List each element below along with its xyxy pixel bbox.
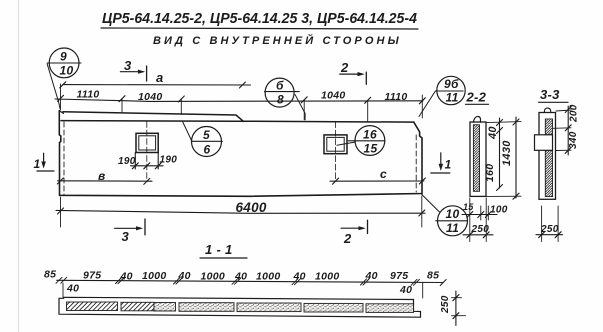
panel main top edge bbox=[61, 121, 414, 123]
6400 dimension bbox=[60, 197, 62, 227]
svg-text:8: 8 bbox=[277, 93, 284, 107]
svg-text:11: 11 bbox=[446, 91, 459, 105]
svg-text:250: 250 bbox=[471, 224, 490, 235]
lifting loop bbox=[473, 116, 480, 122]
svg-text:5: 5 bbox=[203, 128, 210, 142]
callout circle б/8 bbox=[265, 78, 306, 120]
svg-text:16: 16 bbox=[363, 128, 377, 142]
svg-text:1110: 1110 bbox=[385, 91, 408, 103]
svg-text:40: 40 bbox=[120, 271, 133, 283]
right opening square bbox=[324, 135, 347, 154]
svg-text:250: 250 bbox=[540, 224, 559, 235]
bottom dims of 2-2 bbox=[469, 198, 471, 242]
svg-text:1: 1 bbox=[445, 158, 452, 172]
svg-text:в: в bbox=[98, 169, 106, 183]
callout circle 9/10 bbox=[47, 48, 81, 109]
dashed line right bbox=[415, 135, 417, 192]
svg-text:40: 40 bbox=[234, 271, 247, 283]
section mark 1 left bbox=[34, 153, 54, 171]
section mark 2 bottom bbox=[341, 220, 367, 246]
top dim line of 1-1 bbox=[57, 280, 444, 282]
svg-text:11: 11 bbox=[446, 221, 459, 235]
strip outline bbox=[59, 297, 421, 317]
svg-text:9б: 9б bbox=[444, 77, 459, 91]
svg-text:200: 200 bbox=[569, 104, 580, 123]
svg-text:2: 2 bbox=[343, 231, 352, 246]
key (shponka) bbox=[535, 135, 553, 151]
svg-text:40: 40 bbox=[399, 284, 412, 296]
svg-text:3-3: 3-3 bbox=[540, 87, 560, 102]
svg-text:2-2: 2-2 bbox=[466, 90, 487, 105]
svg-text:10: 10 bbox=[60, 64, 74, 78]
svg-text:190: 190 bbox=[160, 155, 178, 166]
svg-text:1110: 1110 bbox=[77, 89, 100, 101]
190-190 dim of left square bbox=[131, 165, 164, 167]
dim line "в" bbox=[58, 180, 153, 182]
body bbox=[539, 113, 556, 200]
svg-text:85: 85 bbox=[44, 269, 56, 281]
top dimension line 1110/1040 .. 1040/1110 bbox=[55, 99, 423, 101]
top dimension line "a" bbox=[63, 84, 251, 86]
svg-text:160: 160 bbox=[484, 164, 496, 182]
right dims of 2-2 bbox=[486, 122, 521, 123]
witness lines bbox=[60, 84, 62, 110]
callout circle 10/11 bbox=[422, 195, 468, 236]
panel top ledge outer line bbox=[63, 112, 244, 122]
svg-text:1040: 1040 bbox=[138, 91, 163, 103]
svg-text:190: 190 bbox=[118, 156, 136, 167]
callout circle 9б/11 bbox=[419, 76, 465, 116]
svg-text:250: 250 bbox=[440, 295, 451, 314]
right opening centerlines bbox=[335, 122, 337, 182]
svg-text:3: 3 bbox=[122, 229, 130, 244]
svg-text:40: 40 bbox=[293, 271, 306, 283]
top tab bbox=[544, 108, 550, 112]
svg-text:a: a bbox=[156, 70, 164, 85]
svg-text:40: 40 bbox=[66, 283, 79, 295]
svg-text:ВИД С ВНУТРЕННЕЙ СТОРОНЫ: ВИД С ВНУТРЕННЕЙ СТОРОНЫ bbox=[153, 34, 402, 47]
left opening square bbox=[136, 133, 158, 152]
svg-text:100: 100 bbox=[490, 205, 508, 216]
tick slashes on 1-1 dim bbox=[56, 277, 446, 285]
svg-text:1430: 1430 bbox=[501, 140, 513, 166]
svg-text:6: 6 bbox=[204, 143, 211, 157]
svg-text:40: 40 bbox=[487, 126, 499, 140]
svg-text:c: c bbox=[380, 167, 387, 181]
svg-text:15: 15 bbox=[463, 202, 474, 212]
labels of 1-1 dims bbox=[44, 269, 439, 297]
svg-text:1: 1 bbox=[34, 157, 41, 171]
panel outline bbox=[59, 111, 422, 197]
insulation blocks bbox=[67, 302, 414, 312]
svg-text:1000: 1000 bbox=[256, 271, 281, 283]
svg-text:340: 340 bbox=[568, 131, 579, 149]
svg-text:1000: 1000 bbox=[315, 271, 340, 283]
section mark 3 top bbox=[120, 58, 146, 81]
svg-text:40: 40 bbox=[178, 270, 191, 282]
section mark 3 bottom bbox=[115, 219, 145, 244]
callout circle 16/15 bbox=[337, 126, 385, 156]
svg-text:85: 85 bbox=[427, 270, 439, 282]
svg-text:40: 40 bbox=[365, 270, 378, 282]
svg-text:б: б bbox=[276, 79, 284, 93]
callout circle 5/6 bbox=[183, 122, 223, 157]
dashed line left bbox=[63, 122, 65, 195]
bottom dim of 3-3 bbox=[541, 206, 543, 242]
svg-text:1000: 1000 bbox=[201, 271, 226, 283]
section mark 2 top bbox=[340, 60, 367, 84]
svg-text:1 - 1: 1 - 1 bbox=[205, 242, 233, 257]
svg-text:ЦР5-64.14.25-2, ЦР5-64.14.25 3: ЦР5-64.14.25-2, ЦР5-64.14.25 3, ЦР5-64.1… bbox=[102, 11, 417, 27]
right dims of 3-3 bbox=[556, 110, 571, 111]
svg-text:3: 3 bbox=[124, 58, 132, 73]
250 dim right of 1-1 bbox=[455, 291, 457, 326]
section mark 1 right bbox=[431, 153, 452, 173]
svg-text:10: 10 bbox=[446, 207, 460, 221]
svg-text:1000: 1000 bbox=[142, 270, 167, 282]
body bbox=[470, 122, 486, 196]
svg-text:975: 975 bbox=[83, 270, 101, 282]
dim line "c" bbox=[330, 180, 424, 182]
svg-text:975: 975 bbox=[390, 270, 408, 282]
svg-text:15: 15 bbox=[364, 142, 378, 156]
svg-text:1040: 1040 bbox=[321, 90, 346, 102]
svg-text:6400: 6400 bbox=[236, 200, 267, 215]
left opening centerlines bbox=[146, 122, 148, 182]
svg-text:2: 2 bbox=[340, 60, 349, 75]
svg-text:9: 9 bbox=[60, 50, 67, 64]
